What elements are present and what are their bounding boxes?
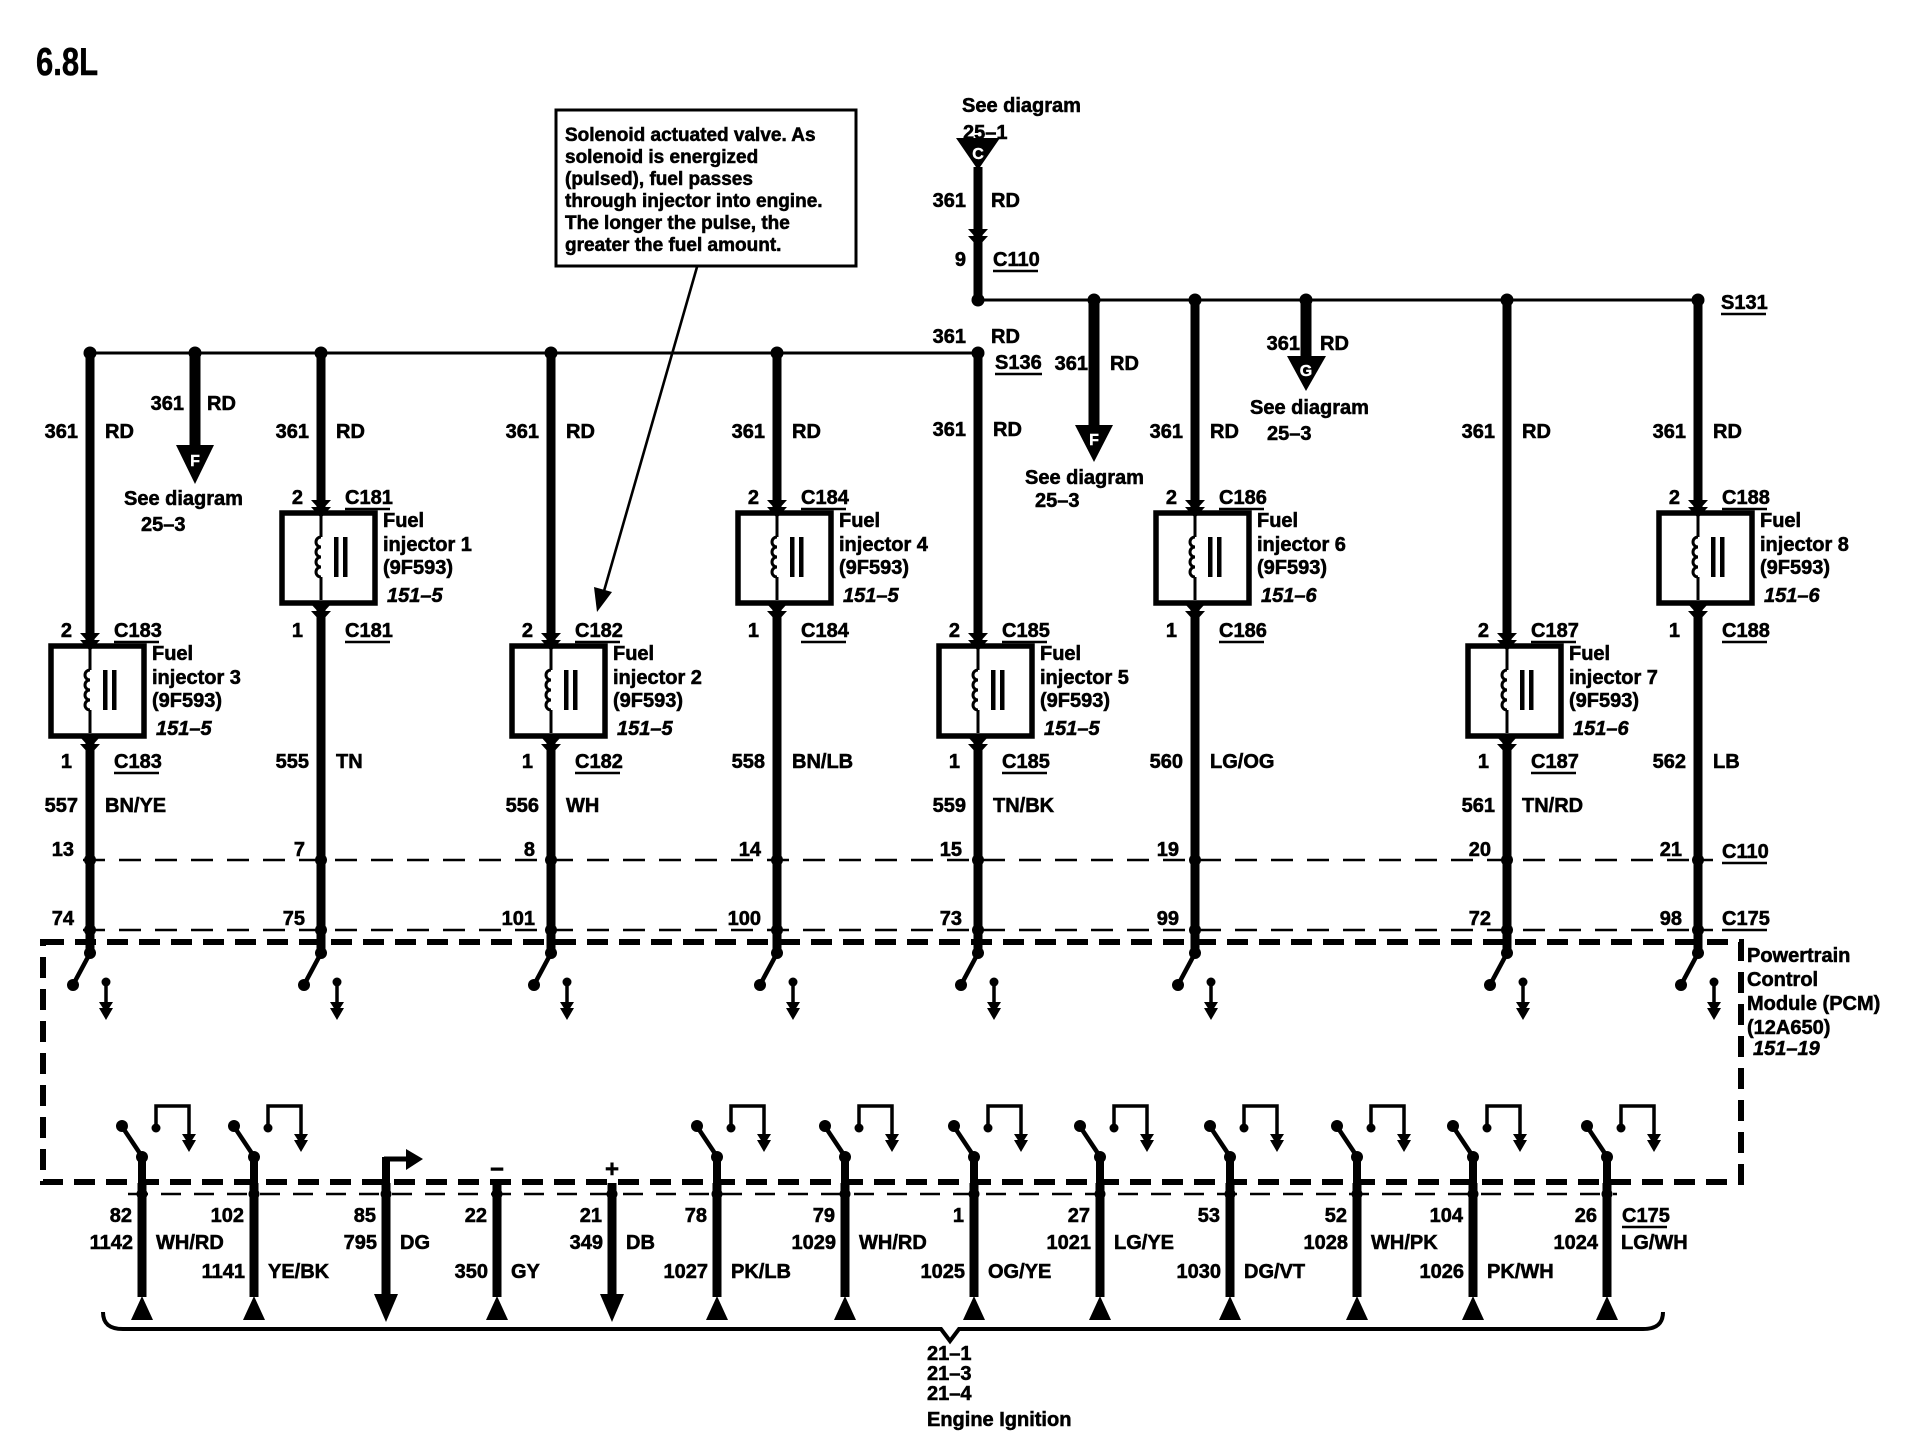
wire 557 BN/YE from injector 3 to PCM xyxy=(45,736,167,953)
svg-text:2: 2 xyxy=(61,620,72,642)
svg-text:Engine Ignition: Engine Ignition xyxy=(927,1409,1071,1431)
svg-text:1: 1 xyxy=(1478,751,1489,773)
junction dot C110/bus xyxy=(972,294,985,307)
svg-text:19: 19 xyxy=(1157,839,1179,861)
svg-text:6.8L: 6.8L xyxy=(36,41,98,84)
PCM driver switch at pin x=978 xyxy=(955,947,1001,1020)
fuel injector 2 (C182) box xyxy=(512,646,605,736)
svg-text:151–5: 151–5 xyxy=(617,718,673,740)
svg-text:BN/YE: BN/YE xyxy=(105,795,166,817)
svg-text:25–3: 25–3 xyxy=(1267,423,1312,445)
connector C182 pin 2 xyxy=(522,620,623,651)
svg-text:562: 562 xyxy=(1653,751,1686,773)
svg-text:(9F593): (9F593) xyxy=(1569,690,1639,712)
svg-text:78: 78 xyxy=(685,1205,707,1227)
svg-text:Fuel: Fuel xyxy=(1257,510,1298,532)
svg-text:100: 100 xyxy=(728,908,761,930)
svg-text:F: F xyxy=(1089,432,1099,449)
in-line connector C110 pin 9 xyxy=(955,229,1040,271)
svg-text:26: 26 xyxy=(1575,1205,1597,1227)
C110 pin 19 xyxy=(1157,839,1201,866)
connector C175 dashed line xyxy=(83,908,1770,930)
svg-text:1021: 1021 xyxy=(1047,1232,1092,1254)
svg-text:(9F593): (9F593) xyxy=(1760,557,1830,579)
fuel injector 2 label xyxy=(613,643,702,740)
C175 pin 101 xyxy=(502,908,557,936)
wire 361 RD arrow G to diagram 25-3 xyxy=(1250,300,1369,445)
C175 pin 85 wire 795 DG xyxy=(344,1183,430,1322)
svg-text:F: F xyxy=(190,453,200,470)
PCM low-side switch above pin x=254 xyxy=(228,1106,308,1183)
svg-text:RD: RD xyxy=(1110,353,1139,375)
svg-text:GY: GY xyxy=(511,1261,541,1283)
svg-text:558: 558 xyxy=(732,751,765,773)
junction dot injector 6 branch xyxy=(1189,294,1202,307)
svg-text:2: 2 xyxy=(1166,487,1177,509)
svg-text:See diagram: See diagram xyxy=(1250,397,1369,419)
svg-text:13: 13 xyxy=(52,839,74,861)
svg-text:LG/OG: LG/OG xyxy=(1210,751,1274,773)
svg-text:14: 14 xyxy=(739,839,762,861)
svg-text:C185: C185 xyxy=(1002,620,1050,642)
svg-text:560: 560 xyxy=(1150,751,1183,773)
svg-text:21–3: 21–3 xyxy=(927,1363,972,1385)
svg-text:through injector into engine.: through injector into engine. xyxy=(565,191,823,212)
svg-text:WH/RD: WH/RD xyxy=(859,1232,927,1254)
C175 pin 102 wire 1141 YE/BK xyxy=(202,1183,330,1320)
svg-text:1: 1 xyxy=(953,1205,964,1227)
C175 pin 74 xyxy=(52,908,96,936)
brace: wires to Engine Ignition diagrams xyxy=(103,1312,1663,1341)
C175 pin 98 xyxy=(1660,908,1704,936)
junction dot S131/injector 8 branch xyxy=(1692,294,1705,307)
C175 pin 26 wire 1024 LG/WH xyxy=(1554,1183,1688,1320)
svg-text:1: 1 xyxy=(949,751,960,773)
wire 361 RD branch to injector 8 xyxy=(1653,300,1742,513)
svg-text:LB: LB xyxy=(1713,751,1740,773)
svg-text:8: 8 xyxy=(524,839,535,861)
svg-text:C186: C186 xyxy=(1219,487,1267,509)
svg-text:solenoid is energized: solenoid is energized xyxy=(565,147,758,168)
C110 pin 14 xyxy=(739,839,783,866)
wire 361 RD arrow F (right) to diagram 25-3 xyxy=(1025,300,1144,512)
svg-text:1026: 1026 xyxy=(1420,1261,1465,1283)
connector C188 pin 2 xyxy=(1669,487,1770,518)
svg-text:Powertrain: Powertrain xyxy=(1747,945,1850,967)
svg-text:101: 101 xyxy=(502,908,535,930)
svg-text:C175: C175 xyxy=(1722,908,1770,930)
svg-text:2: 2 xyxy=(522,620,533,642)
svg-text:361: 361 xyxy=(933,326,966,348)
svg-text:73: 73 xyxy=(940,908,962,930)
svg-text:C183: C183 xyxy=(114,751,162,773)
connector C175 label at pin 26 xyxy=(1622,1205,1670,1227)
svg-text:C181: C181 xyxy=(345,487,393,509)
svg-text:C175: C175 xyxy=(1622,1205,1670,1227)
svg-text:greater the fuel amount.: greater the fuel amount. xyxy=(565,235,781,256)
connector C188 pin 1 xyxy=(1669,604,1770,642)
svg-text:(9F593): (9F593) xyxy=(383,557,453,579)
svg-text:1141: 1141 xyxy=(202,1261,245,1283)
fuel injector 3 label xyxy=(152,643,241,740)
svg-text:21–4: 21–4 xyxy=(927,1383,972,1405)
svg-text:(9F593): (9F593) xyxy=(1257,557,1327,579)
svg-text:Fuel: Fuel xyxy=(1760,510,1801,532)
svg-text:C184: C184 xyxy=(801,620,850,642)
svg-text:injector 4: injector 4 xyxy=(839,534,929,556)
svg-text:injector 3: injector 3 xyxy=(152,667,241,689)
fuel injector 1 (C181) box xyxy=(282,513,375,603)
svg-text:−: − xyxy=(490,1156,504,1183)
junction dot injector 3 branch xyxy=(84,347,97,360)
svg-text:RD: RD xyxy=(207,393,236,415)
destination labels: diagrams 21-1 21-3 21-4 Engine Ignition xyxy=(927,1343,1071,1431)
svg-text:See diagram: See diagram xyxy=(962,95,1081,117)
junction dot injector 7 branch xyxy=(1501,294,1514,307)
svg-text:85: 85 xyxy=(354,1205,376,1227)
svg-text:TN: TN xyxy=(336,751,363,773)
PCM low-side switch above pin x=1357 xyxy=(1331,1106,1411,1183)
C175 pin 52 wire 1028 WH/PK xyxy=(1304,1183,1439,1320)
svg-text:RD: RD xyxy=(991,326,1020,348)
svg-text:2: 2 xyxy=(949,620,960,642)
PCM low-side switch above pin x=845 xyxy=(819,1106,899,1183)
svg-text:RD: RD xyxy=(336,421,365,443)
PCM low-side switch above pin x=717 xyxy=(691,1106,771,1183)
svg-text:C110: C110 xyxy=(993,249,1040,271)
wire 361 RD between C110 and S136 xyxy=(933,326,1020,348)
PCM driver switch at pin x=777 xyxy=(754,947,800,1020)
C110 pin 8 xyxy=(524,839,557,866)
PCM driver switch at pin x=321 xyxy=(298,947,344,1020)
wire 560 LG/OG from injector 6 to PCM xyxy=(1150,603,1275,953)
svg-text:injector 6: injector 6 xyxy=(1257,534,1346,556)
wire 361 RD branch to injector 5 xyxy=(933,353,1022,646)
svg-text:LG/YE: LG/YE xyxy=(1114,1232,1174,1254)
svg-text:RD: RD xyxy=(993,419,1022,441)
svg-text:RD: RD xyxy=(1522,421,1551,443)
svg-text:DG/VT: DG/VT xyxy=(1244,1261,1305,1283)
svg-text:98: 98 xyxy=(1660,908,1682,930)
svg-text:C188: C188 xyxy=(1722,487,1770,509)
C175 pin 75 xyxy=(283,908,327,936)
svg-text:151–5: 151–5 xyxy=(1044,718,1100,740)
svg-text:(9F593): (9F593) xyxy=(152,690,222,712)
svg-text:See diagram: See diagram xyxy=(1025,467,1144,489)
svg-text:555: 555 xyxy=(276,751,309,773)
svg-text:72: 72 xyxy=(1469,908,1491,930)
connector C185 pin 1 xyxy=(949,737,1050,773)
wire 559 TN/BK from injector 5 to PCM xyxy=(933,736,1055,953)
C110 pin 20 xyxy=(1469,839,1513,866)
svg-text:injector 7: injector 7 xyxy=(1569,667,1658,689)
svg-text:1030: 1030 xyxy=(1177,1261,1222,1283)
svg-text:2: 2 xyxy=(748,487,759,509)
svg-text:99: 99 xyxy=(1157,908,1179,930)
svg-text:104: 104 xyxy=(1430,1205,1464,1227)
svg-text:9: 9 xyxy=(955,249,966,271)
svg-text:C181: C181 xyxy=(345,620,393,642)
svg-text:Fuel: Fuel xyxy=(1569,643,1610,665)
wire 361 RD branch to injector 3 xyxy=(45,353,134,646)
connector C181 pin 1 xyxy=(292,604,393,642)
junction dot injector 4 branch xyxy=(771,347,784,360)
svg-text:See diagram: See diagram xyxy=(124,488,243,510)
splice S136 bus (left horizontal wire) xyxy=(90,352,1042,374)
C175 pin 78 wire 1027 PK/LB xyxy=(664,1183,792,1320)
svg-text:7: 7 xyxy=(294,839,305,861)
svg-text:WH/RD: WH/RD xyxy=(156,1232,224,1254)
fuel injector 5 (C185) box xyxy=(939,646,1032,736)
wire 556 WH from injector 2 to PCM xyxy=(506,736,600,953)
svg-text:PK/WH: PK/WH xyxy=(1487,1261,1554,1283)
svg-text:361: 361 xyxy=(276,421,309,443)
C175 pin 1 wire 1025 OG/YE xyxy=(921,1183,1052,1320)
connector C187 pin 1 xyxy=(1478,737,1579,773)
svg-text:2: 2 xyxy=(292,487,303,509)
PCM internal flag symbol above pin 85 xyxy=(382,1149,423,1183)
C175 pin 99 xyxy=(1157,908,1201,936)
svg-text:Fuel: Fuel xyxy=(152,643,193,665)
svg-text:151–5: 151–5 xyxy=(843,585,899,607)
wire 361 RD branch to injector 2 xyxy=(506,353,595,646)
svg-text:(pulsed), fuel passes: (pulsed), fuel passes xyxy=(565,169,753,190)
connector C186 pin 1 xyxy=(1166,604,1267,642)
svg-text:C187: C187 xyxy=(1531,751,1579,773)
svg-text:151–5: 151–5 xyxy=(387,585,443,607)
svg-text:C110: C110 xyxy=(1722,841,1769,863)
svg-text:TN/RD: TN/RD xyxy=(1522,795,1583,817)
svg-text:Fuel: Fuel xyxy=(383,510,424,532)
svg-text:361: 361 xyxy=(45,421,78,443)
svg-text:C182: C182 xyxy=(575,751,623,773)
junction dot injector 1 branch xyxy=(315,347,328,360)
fuel injector 7 label xyxy=(1569,643,1658,740)
C175 pin 104 wire 1026 PK/WH xyxy=(1420,1183,1554,1320)
svg-text:(12A650): (12A650) xyxy=(1747,1017,1830,1039)
PCM low-side switch above pin x=1100 xyxy=(1074,1106,1154,1183)
wire 558 BN/LB from injector 4 to PCM xyxy=(732,603,853,953)
note pointer arrow to C182 xyxy=(594,267,697,612)
svg-text:151–6: 151–6 xyxy=(1573,718,1629,740)
fuel injector 5 label xyxy=(1040,643,1129,740)
fuel injector 1 label xyxy=(383,510,472,607)
svg-text:RD: RD xyxy=(991,190,1020,212)
svg-text:561: 561 xyxy=(1462,795,1495,817)
PCM driver switch at pin x=1195 xyxy=(1172,947,1218,1020)
svg-text:(9F593): (9F593) xyxy=(613,690,683,712)
svg-text:21–1: 21–1 xyxy=(927,1343,972,1365)
junction dot G-arrow branch xyxy=(1300,294,1313,307)
svg-text:BN/LB: BN/LB xyxy=(792,751,853,773)
svg-text:Fuel: Fuel xyxy=(839,510,880,532)
svg-text:1028: 1028 xyxy=(1304,1232,1349,1254)
svg-text:1: 1 xyxy=(1166,620,1177,642)
fuel injector 7 (C187) box xyxy=(1468,646,1561,736)
wire 561 TN/RD from injector 7 to PCM xyxy=(1462,736,1583,953)
svg-text:injector 5: injector 5 xyxy=(1040,667,1129,689)
svg-text:151–6: 151–6 xyxy=(1764,585,1820,607)
wire 555 TN from injector 1 to PCM xyxy=(276,603,363,953)
svg-text:556: 556 xyxy=(506,795,539,817)
svg-text:The longer the pulse, the: The longer the pulse, the xyxy=(565,213,790,234)
connector C184 pin 2 xyxy=(748,487,850,518)
svg-text:361: 361 xyxy=(1462,421,1495,443)
fuel injector 8 (C188) box xyxy=(1659,513,1752,603)
fuel injector 6 (C186) box xyxy=(1156,513,1249,603)
wire 361 RD branch to injector 1 xyxy=(276,353,365,513)
connector C185 pin 2 xyxy=(949,620,1050,651)
connector C110 dashed line xyxy=(83,841,1769,863)
junction dot F-arrow branch xyxy=(189,347,202,360)
svg-text:349: 349 xyxy=(570,1232,603,1254)
note box: solenoid actuated valve description xyxy=(556,110,856,266)
svg-text:1027: 1027 xyxy=(664,1261,709,1283)
C175 pin 21 wire 349 DB xyxy=(570,1183,655,1322)
svg-text:559: 559 xyxy=(933,795,966,817)
C175 bottom dashed connector line xyxy=(128,1193,1617,1195)
svg-text:22: 22 xyxy=(465,1205,487,1227)
svg-text:TN/BK: TN/BK xyxy=(993,795,1055,817)
PCM low-side switch above pin x=142 xyxy=(116,1106,196,1183)
PCM driver switch at pin x=551 xyxy=(528,947,574,1020)
svg-text:102: 102 xyxy=(211,1205,244,1227)
svg-text:C: C xyxy=(972,146,984,163)
svg-text:LG/WH: LG/WH xyxy=(1621,1232,1688,1254)
svg-text:1024: 1024 xyxy=(1554,1232,1599,1254)
svg-text:+: + xyxy=(605,1156,619,1183)
splice S131 power bus (top horizontal wire) xyxy=(978,292,1768,314)
svg-text:injector 8: injector 8 xyxy=(1760,534,1849,556)
svg-text:OG/YE: OG/YE xyxy=(988,1261,1051,1283)
svg-text:DG: DG xyxy=(400,1232,430,1254)
svg-text:S136: S136 xyxy=(995,352,1042,374)
svg-text:S131: S131 xyxy=(1721,292,1768,314)
wire 361 RD branch to injector 6 xyxy=(1150,300,1239,513)
svg-text:Control: Control xyxy=(1747,969,1818,991)
svg-text:YE/BK: YE/BK xyxy=(268,1261,330,1283)
fuel injector 6 label xyxy=(1257,510,1346,607)
fuel injector 3 (C183) box xyxy=(51,646,144,736)
svg-text:WH: WH xyxy=(566,795,599,817)
PCM low-side switch above pin x=1607 xyxy=(1581,1106,1661,1183)
C175 pin 53 wire 1030 DG/VT xyxy=(1177,1183,1306,1320)
svg-text:WH/PK: WH/PK xyxy=(1371,1232,1438,1254)
svg-text:RD: RD xyxy=(105,421,134,443)
PCM low-side switch above pin x=974 xyxy=(948,1106,1028,1183)
svg-text:361: 361 xyxy=(151,393,184,415)
svg-text:350: 350 xyxy=(455,1261,488,1283)
C175 pin 79 wire 1029 WH/RD xyxy=(792,1183,927,1320)
svg-text:G: G xyxy=(1300,363,1312,380)
svg-text:75: 75 xyxy=(283,908,305,930)
svg-text:151–19: 151–19 xyxy=(1753,1038,1821,1060)
svg-text:52: 52 xyxy=(1325,1205,1347,1227)
svg-text:2: 2 xyxy=(1478,620,1489,642)
svg-text:361: 361 xyxy=(1150,421,1183,443)
svg-text:RD: RD xyxy=(1713,421,1742,443)
C110 pin 21 xyxy=(1660,839,1704,866)
C110 pin 13 xyxy=(52,839,96,866)
fuel injector 4 (C184) box xyxy=(738,513,831,603)
svg-text:361: 361 xyxy=(1055,353,1088,375)
PCM driver switch at pin x=1698 xyxy=(1675,947,1721,1020)
svg-text:1: 1 xyxy=(522,751,533,773)
svg-text:2: 2 xyxy=(1669,487,1680,509)
svg-text:C184: C184 xyxy=(801,487,850,509)
svg-text:1029: 1029 xyxy=(792,1232,837,1254)
svg-text:1: 1 xyxy=(292,620,303,642)
svg-text:25–3: 25–3 xyxy=(141,514,186,536)
wire 361 RD branch to injector 4 xyxy=(732,353,821,513)
svg-text:C183: C183 xyxy=(114,620,162,642)
C175 pin 27 wire 1021 LG/YE xyxy=(1047,1183,1175,1320)
svg-text:RD: RD xyxy=(566,421,595,443)
fuel injector 8 label xyxy=(1760,510,1849,607)
connector C187 pin 2 xyxy=(1478,620,1579,651)
svg-text:1: 1 xyxy=(61,751,72,773)
svg-text:795: 795 xyxy=(344,1232,377,1254)
svg-text:Module (PCM): Module (PCM) xyxy=(1747,993,1880,1015)
svg-text:1142: 1142 xyxy=(90,1232,133,1254)
svg-text:361: 361 xyxy=(1267,333,1300,355)
PCM low-side switch above pin x=1230 xyxy=(1204,1106,1284,1183)
svg-text:1025: 1025 xyxy=(921,1261,966,1283)
svg-text:361: 361 xyxy=(933,190,966,212)
svg-text:1: 1 xyxy=(1669,620,1680,642)
connector C183 pin 1 xyxy=(61,737,162,773)
svg-text:74: 74 xyxy=(52,908,75,930)
C175 pin 72 xyxy=(1469,908,1513,936)
svg-text:Fuel: Fuel xyxy=(613,643,654,665)
connector C from diagram 25-1 (triangle) xyxy=(956,95,1081,170)
svg-text:151–6: 151–6 xyxy=(1261,585,1317,607)
connector C181 pin 2 xyxy=(292,487,393,518)
svg-text:27: 27 xyxy=(1068,1205,1090,1227)
svg-text:361: 361 xyxy=(732,421,765,443)
wire 361 RD from connector C to C110 pin 9 xyxy=(933,167,1020,300)
C175 pin 22 wire 350 GY xyxy=(455,1183,541,1320)
PCM low-side switch above pin x=1473 xyxy=(1447,1106,1527,1183)
C175 pin 82 wire 1142 WH/RD xyxy=(90,1183,224,1320)
svg-text:1: 1 xyxy=(748,620,759,642)
svg-text:557: 557 xyxy=(45,795,78,817)
svg-text:C186: C186 xyxy=(1219,620,1267,642)
svg-text:82: 82 xyxy=(110,1205,132,1227)
svg-text:361: 361 xyxy=(933,419,966,441)
svg-text:21: 21 xyxy=(1660,839,1682,861)
C110 pin 15 xyxy=(940,839,984,866)
C175 pin 100 xyxy=(728,908,783,936)
svg-text:53: 53 xyxy=(1198,1205,1220,1227)
svg-text:79: 79 xyxy=(813,1205,835,1227)
connector C182 pin 1 xyxy=(522,737,623,773)
svg-text:15: 15 xyxy=(940,839,962,861)
svg-text:PK/LB: PK/LB xyxy=(731,1261,791,1283)
Powertrain Control Module (PCM) dashed box xyxy=(43,942,1880,1182)
svg-text:RD: RD xyxy=(1210,421,1239,443)
wire 361 RD arrow F (left) to diagram 25-3 xyxy=(124,353,243,536)
connector C184 pin 1 xyxy=(748,604,850,642)
svg-text:361: 361 xyxy=(1653,421,1686,443)
C110 pin 7 xyxy=(294,839,327,866)
connector C183 pin 2 xyxy=(61,620,162,651)
PCM driver switch at pin x=1507 xyxy=(1484,947,1530,1020)
svg-text:RD: RD xyxy=(792,421,821,443)
svg-text:21: 21 xyxy=(580,1205,602,1227)
svg-text:RD: RD xyxy=(1320,333,1349,355)
svg-text:Fuel: Fuel xyxy=(1040,643,1081,665)
